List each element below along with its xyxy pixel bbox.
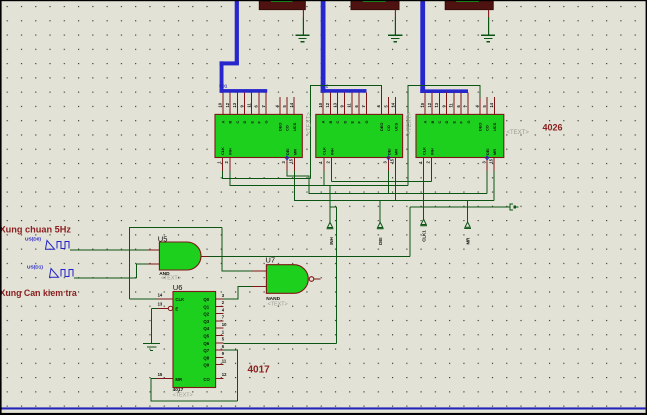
wire CLK U1 down xyxy=(222,171,310,178)
svg-text:<TEXT>: <TEXT> xyxy=(307,112,313,135)
pin stub U7 input A xyxy=(252,270,267,272)
top segment pin stubs U2 (a-g) xyxy=(323,93,366,115)
svg-text:E: E xyxy=(350,121,355,124)
svg-text:D: D xyxy=(242,121,247,124)
pin stub U7 output xyxy=(314,278,321,280)
counter IC U1 4026 (left) xyxy=(215,114,302,157)
pin stub U5 input A xyxy=(147,249,159,251)
wire INH U2-U3 bundle xyxy=(332,171,432,181)
svg-text:C: C xyxy=(335,121,340,124)
pin name labels inside U1 (CO,DEO,UCS rotated) xyxy=(277,122,296,131)
pin numbers U3 extra pins (rotated) xyxy=(475,102,494,107)
svg-text:A: A xyxy=(321,121,326,124)
svg-text:Q4: Q4 xyxy=(203,326,209,331)
pin stub U5 output xyxy=(201,255,209,257)
terminal T4 (net MR) xyxy=(464,222,471,245)
clock generator G1 (US(D0)) xyxy=(46,241,70,250)
wire U5 output riser xyxy=(409,207,411,256)
svg-text:INH: INH xyxy=(329,148,334,155)
svg-text:12: 12 xyxy=(222,372,227,377)
wire carry U2 over bus xyxy=(310,85,381,178)
pin stub display DS1 common xyxy=(302,10,304,18)
svg-text:12: 12 xyxy=(325,102,330,107)
pin name labels inside U1 bottom (CLK,INH,DEI,MR rotated) xyxy=(220,147,297,155)
svg-text:U6: U6 xyxy=(173,283,183,292)
svg-text:CLK: CLK xyxy=(175,297,185,302)
pin stub U6 CLK xyxy=(158,298,173,300)
bottom pin stubs U1 (CLK,INH,DEI,MR) xyxy=(222,158,294,172)
svg-text:C: C xyxy=(437,121,442,124)
svg-text:D: D xyxy=(342,121,347,124)
svg-text:10: 10 xyxy=(222,322,227,327)
bottom pin stubs U2 (CLK,INH,DEI,MR) xyxy=(324,158,396,172)
ground (DS2) xyxy=(388,35,402,42)
svg-text:CLK1: CLK1 xyxy=(422,230,427,242)
wire U7 input A drop xyxy=(222,228,252,271)
pin numbers U3 bottom pins (rotated) xyxy=(418,158,494,163)
svg-text:Q2: Q2 xyxy=(203,312,209,317)
svg-text:<TEXT>: <TEXT> xyxy=(161,276,181,282)
wire DS3 to ground xyxy=(488,17,490,35)
svg-text:INH: INH xyxy=(329,237,334,245)
svg-text:CO: CO xyxy=(285,125,290,131)
svg-text:11: 11 xyxy=(222,359,227,364)
svg-text:13: 13 xyxy=(158,302,163,307)
extra top pin stubs U2 (DEO,CO,UCS) xyxy=(381,97,395,114)
counter U6 (4017) body xyxy=(168,283,215,388)
svg-text:A: A xyxy=(423,121,428,124)
svg-text:INH: INH xyxy=(429,148,434,155)
svg-text:DEI: DEI xyxy=(378,237,383,244)
7-segment display DS1 (bottom edge, cut off at top) xyxy=(259,0,305,10)
U6 interior pin names xyxy=(175,297,210,382)
power-rail diamond marker on DEI pin of U1 xyxy=(285,156,288,160)
pin stub display DS3 common xyxy=(488,10,490,18)
bus B3 to DS3 xyxy=(420,0,468,93)
svg-text:Q6: Q6 xyxy=(203,341,209,346)
svg-text:15: 15 xyxy=(488,158,493,163)
svg-text:Xung Can kiem tra: Xung Can kiem tra xyxy=(0,288,77,298)
svg-text:US(D1): US(D1) xyxy=(27,265,43,271)
svg-text:G: G xyxy=(466,120,471,123)
pin numbers U1 bottom pins (rotated) xyxy=(217,158,294,163)
svg-text:<TEXT>: <TEXT> xyxy=(507,130,530,136)
svg-text:15: 15 xyxy=(390,158,395,163)
bottom pin stubs U3 (CLK,INH,DEI,MR) xyxy=(424,158,495,172)
svg-text:DEO: DEO xyxy=(478,123,483,131)
svg-text:E: E xyxy=(175,307,178,312)
pin stub U5 input B xyxy=(147,263,159,265)
pin stub U7 input B xyxy=(252,285,267,287)
svg-text:4026: 4026 xyxy=(543,122,563,132)
bus B1 to DS1 (with elbow) xyxy=(220,0,268,93)
pin numbers U2 segment pins (rotated) xyxy=(318,102,366,107)
svg-text:INH: INH xyxy=(228,148,233,155)
wire generator 2 horizontal xyxy=(74,277,137,279)
svg-text:DEI: DEI xyxy=(285,149,290,156)
svg-text:B: B xyxy=(430,121,435,124)
svg-text:D: D xyxy=(444,121,449,124)
top segment pin stubs U3 (a-g) xyxy=(425,93,468,115)
segment letter labels inside U1 (rotated A-G) xyxy=(221,120,269,123)
wire output arrow net xyxy=(410,206,509,208)
svg-text:10: 10 xyxy=(218,102,223,107)
svg-text:Q7: Q7 xyxy=(203,348,209,353)
pin stub display DS2 common xyxy=(394,10,396,18)
svg-text:Q9: Q9 xyxy=(203,363,209,368)
wire INH U1 to bus bundle xyxy=(230,171,408,185)
svg-text:UCS: UCS xyxy=(393,122,398,131)
pin name labels inside U3 bottom (CLK,INH,DEI,MR rotated) xyxy=(421,147,497,155)
pin numbers U1 extra pins (rotated) xyxy=(275,102,294,107)
svg-text:DEI: DEI xyxy=(485,149,490,156)
7-segment display DS2 (bottom edge, cut off at top) xyxy=(351,0,399,10)
extra top pin stubs U1 (DEO,CO,UCS) xyxy=(280,97,294,114)
svg-text:Q8: Q8 xyxy=(203,355,209,360)
wire CLK U2 down xyxy=(323,171,325,185)
svg-text:Q0: Q0 xyxy=(203,297,209,302)
svg-text:11: 11 xyxy=(247,102,252,107)
wire CLK U3 to terminal T3 xyxy=(423,171,425,219)
wire generator 1 to U5 input A xyxy=(70,249,147,251)
svg-text:Q3: Q3 xyxy=(203,319,209,324)
clock generator G2 (US(D1)) xyxy=(50,269,74,278)
pin numbers U2 bottom pins (rotated) xyxy=(318,158,395,163)
pin stub U6 E xyxy=(158,307,168,309)
svg-text:MR: MR xyxy=(466,237,471,245)
svg-text:B: B xyxy=(328,121,333,124)
svg-text:U5: U5 xyxy=(158,234,168,243)
wire Q0 to U7 input B xyxy=(224,286,252,299)
U6 pin numbers xyxy=(158,293,228,378)
pin stubs U6 Q0-Q9 xyxy=(216,299,224,365)
wire DS1 to ground xyxy=(302,17,304,35)
pin numbers U2 extra pins (rotated) xyxy=(376,102,395,107)
svg-text:13: 13 xyxy=(232,102,237,107)
svg-text:DEO: DEO xyxy=(277,123,282,131)
svg-text:C: C xyxy=(235,121,240,124)
svg-text:E: E xyxy=(249,121,254,124)
svg-text:CLK: CLK xyxy=(322,147,327,155)
svg-text:MR: MR xyxy=(175,377,183,382)
svg-text:SD2: SD2 xyxy=(320,84,329,89)
U6 value and property labels xyxy=(173,387,193,398)
pin numbers U1 segment pins (rotated) xyxy=(218,102,266,107)
pin name labels inside U3 (CO,DEO,UCS rotated) xyxy=(478,122,497,131)
pin stub U6 CO xyxy=(216,378,224,380)
svg-text:MR: MR xyxy=(393,149,398,155)
bus B2 to DS2 xyxy=(321,0,367,93)
ground (U6 E) xyxy=(143,344,160,351)
svg-text:MR: MR xyxy=(492,149,497,155)
wire Q6 feedback riser xyxy=(330,207,337,343)
terminal T3 (net CLK1) xyxy=(420,219,427,242)
svg-text:DEO: DEO xyxy=(379,123,384,131)
svg-text:11: 11 xyxy=(347,102,352,107)
op-amp U7 (NAND gate) xyxy=(265,255,313,307)
svg-text:10: 10 xyxy=(318,102,323,107)
wire terminal T2 riser xyxy=(379,200,381,222)
wire DEI bundle xyxy=(287,171,487,193)
svg-text:E: E xyxy=(451,121,456,124)
svg-text:<TEXT>: <TEXT> xyxy=(268,301,288,307)
svg-text:B: B xyxy=(228,121,233,124)
7-segment display DS3 (bottom edge, cut off at top) xyxy=(445,0,493,10)
pin stub U6 MR xyxy=(157,378,173,380)
svg-text:12: 12 xyxy=(225,102,230,107)
svg-text:Q1: Q1 xyxy=(203,304,209,309)
wire U6 MR loop xyxy=(151,379,237,402)
svg-text:CO: CO xyxy=(485,125,490,131)
svg-text:CO: CO xyxy=(386,125,391,131)
svg-text:CO: CO xyxy=(203,377,210,382)
svg-text:12: 12 xyxy=(427,102,432,107)
svg-text:Xung chuan 5Hz: Xung chuan 5Hz xyxy=(0,225,71,235)
segment letter labels inside U3 (rotated A-G) xyxy=(423,120,471,123)
svg-text:CLK: CLK xyxy=(220,147,225,155)
svg-text:<TEXT>: <TEXT> xyxy=(173,392,193,398)
wire U6 Q6 out xyxy=(224,342,337,344)
svg-text:14: 14 xyxy=(391,102,396,107)
output arrow terminal xyxy=(510,204,519,211)
wire U6 Q7 to MR loop xyxy=(224,350,238,401)
segment letter labels inside U2 (rotated A-G) xyxy=(321,120,369,123)
extra top pin stubs U3 (DEO,CO,UCS) xyxy=(480,97,494,114)
svg-text:G: G xyxy=(264,120,269,123)
pin name labels inside U2 bottom (CLK,INH,DEI,MR rotated) xyxy=(322,147,399,155)
svg-text:11: 11 xyxy=(449,102,454,107)
svg-text:15: 15 xyxy=(158,372,163,377)
wire U6 E to ground xyxy=(152,308,158,343)
svg-text:CLK: CLK xyxy=(421,147,426,155)
svg-text:Q5: Q5 xyxy=(203,334,209,339)
status bar blue line xyxy=(2,407,646,409)
svg-text:4017: 4017 xyxy=(248,364,271,375)
svg-text:A: A xyxy=(221,121,226,124)
pin name labels inside U2 (CO,DEO,UCS rotated) xyxy=(379,122,398,131)
ground (DS3) xyxy=(481,35,495,42)
svg-text:MR: MR xyxy=(292,149,297,155)
pin numbers U3 segment pins (rotated) xyxy=(420,102,468,107)
svg-text:UCS: UCS xyxy=(492,122,497,131)
wire U6 clock riser xyxy=(129,228,222,299)
terminal T1 (net INH) xyxy=(327,222,334,245)
ground (DS1) xyxy=(295,35,309,42)
counter IC U2 4026 (middle) xyxy=(316,114,403,157)
svg-text:10: 10 xyxy=(420,102,425,107)
svg-text:UCS: UCS xyxy=(292,122,297,131)
svg-text:US(D0): US(D0) xyxy=(25,237,41,243)
svg-text:13: 13 xyxy=(332,102,337,107)
wire carry U3 over bus xyxy=(408,85,480,185)
wire terminal T1 riser xyxy=(329,185,331,222)
svg-text:<TEXT>: <TEXT> xyxy=(407,112,413,135)
svg-text:G: G xyxy=(364,120,369,123)
svg-text:14: 14 xyxy=(289,102,294,107)
svg-text:DEI: DEI xyxy=(386,149,391,156)
wire generator 2 riser to U5 input B xyxy=(137,264,148,278)
svg-text:14: 14 xyxy=(489,102,494,107)
svg-text:13: 13 xyxy=(434,102,439,107)
power-rail diamond marker on DEI pin of U3 xyxy=(486,156,489,160)
counter IC U3 4026 (right) xyxy=(416,114,504,157)
power-rail diamond marker on DEI pin of U2 xyxy=(387,156,390,160)
wire U5 output horizontal xyxy=(209,255,411,257)
svg-text:15: 15 xyxy=(289,158,294,163)
top segment pin stubs U1 (a-g) xyxy=(223,93,266,115)
svg-text:14: 14 xyxy=(158,293,163,298)
wire MR bundle xyxy=(295,171,494,200)
svg-text:SD1: SD1 xyxy=(219,84,228,89)
wire U6 CLK horizontal xyxy=(129,298,157,300)
op-amp U5 (AND gate) xyxy=(158,234,201,281)
wire DS2 to ground xyxy=(394,17,396,35)
svg-text:U7: U7 xyxy=(265,255,275,264)
wire terminal T4 riser xyxy=(467,200,469,222)
terminal T2 (net DEI) xyxy=(377,222,384,245)
